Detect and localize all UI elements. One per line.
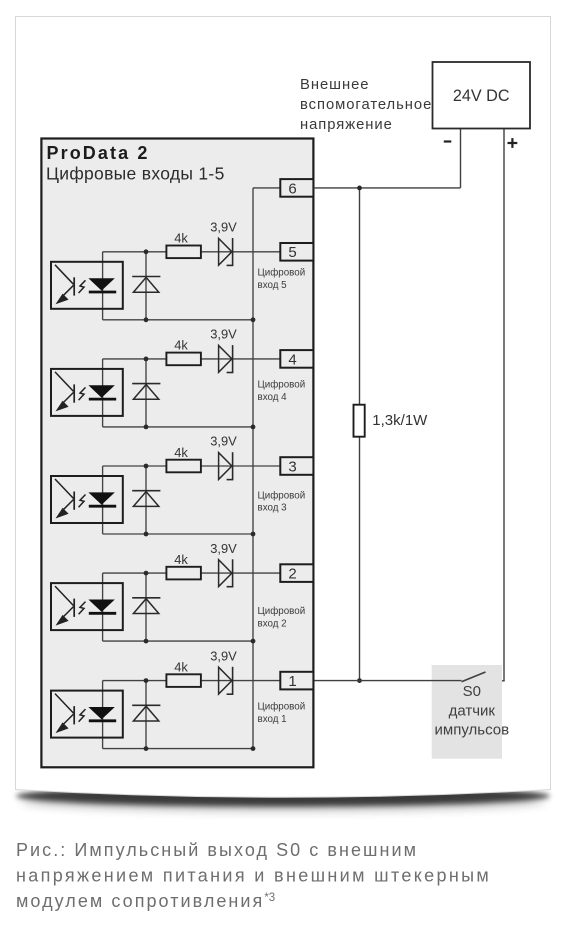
svg-text:3,9V: 3,9V: [210, 327, 237, 342]
svg-text:4k: 4k: [174, 338, 188, 353]
svg-text:Рис.: Импульсный выход S0 с вн: Рис.: Импульсный выход S0 с внешним: [16, 840, 418, 860]
svg-text:3,9V: 3,9V: [210, 541, 237, 556]
svg-text:напряжение: напряжение: [300, 117, 393, 133]
svg-text:4k: 4k: [174, 659, 188, 674]
svg-text:6: 6: [288, 180, 296, 197]
svg-text:ProData 2: ProData 2: [47, 143, 150, 163]
svg-text:Цифровой: Цифровой: [258, 380, 306, 391]
svg-text:модулем сопротивления*3: модулем сопротивления*3: [16, 891, 275, 911]
svg-text:Внешнее: Внешнее: [300, 77, 369, 93]
svg-text:5: 5: [288, 244, 296, 261]
svg-text:вход 2: вход 2: [258, 619, 287, 630]
svg-text:4k: 4k: [174, 552, 188, 567]
svg-text:1,3k/1W: 1,3k/1W: [372, 412, 428, 429]
svg-text:Цифровой: Цифровой: [258, 702, 306, 713]
svg-text:4k: 4k: [174, 231, 188, 246]
svg-text:Цифровой: Цифровой: [258, 490, 306, 501]
svg-text:датчик: датчик: [449, 703, 496, 720]
svg-text:3,9V: 3,9V: [210, 648, 237, 663]
svg-text:вспомогательное: вспомогательное: [300, 97, 432, 113]
svg-text:4k: 4k: [174, 445, 188, 460]
svg-text:S0: S0: [463, 683, 481, 700]
svg-text:3: 3: [288, 458, 296, 475]
svg-text:вход 1: вход 1: [258, 714, 287, 725]
svg-text:2: 2: [288, 566, 296, 583]
svg-text:Цифровые входы 1-5: Цифровые входы 1-5: [46, 164, 225, 184]
svg-text:вход 3: вход 3: [258, 503, 288, 514]
svg-text:Цифровой: Цифровой: [258, 606, 306, 617]
svg-text:3,9V: 3,9V: [210, 434, 237, 449]
svg-text:1: 1: [288, 673, 296, 690]
svg-text:3,9V: 3,9V: [210, 220, 237, 235]
svg-text:4: 4: [288, 351, 296, 368]
svg-text:вход 5: вход 5: [258, 280, 288, 291]
svg-text:импульсов: импульсов: [435, 721, 510, 738]
svg-text:напряжением питания и внешним: напряжением питания и внешним штекерным: [16, 866, 491, 886]
svg-text:вход 4: вход 4: [258, 392, 288, 403]
svg-text:24V DC: 24V DC: [453, 87, 510, 105]
svg-text:Цифровой: Цифровой: [258, 268, 306, 279]
